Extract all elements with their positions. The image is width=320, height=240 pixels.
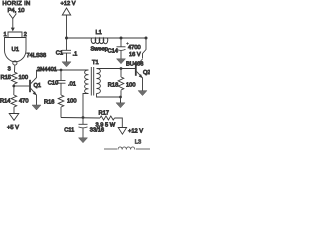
svg-text:U1: U1 <box>12 47 20 53</box>
wire rail to Q2 collector <box>143 38 147 59</box>
resistor R17 3.9 5W <box>96 110 116 128</box>
resistor R18 100 <box>108 69 136 98</box>
power +12V top <box>61 1 76 38</box>
capacitor C14 4700/16V <box>108 38 141 58</box>
wire R15 to node A <box>13 84 15 95</box>
wire pin1/pin2 tie bar <box>4 32 27 38</box>
svg-text:C10: C10 <box>48 80 58 86</box>
inductor L1 Sweep <box>91 30 108 52</box>
svg-text:P4, 10: P4, 10 <box>7 8 25 14</box>
wire gate output to R15 <box>14 65 16 72</box>
svg-text:R15: R15 <box>1 75 11 81</box>
svg-text:C14: C14 <box>108 48 118 54</box>
capacitor C1 .1 <box>56 38 77 58</box>
gate U1 74LS38 <box>5 38 47 73</box>
resistor R14 470 <box>0 95 29 107</box>
wire T1 right bottom to ground node <box>97 94 121 98</box>
power +5V <box>7 114 19 131</box>
wire R17 to +12V <box>115 118 123 128</box>
resistor R16 100 <box>44 95 77 107</box>
svg-text:R14: R14 <box>0 98 10 104</box>
svg-text:Sweep: Sweep <box>91 46 108 52</box>
node Q2 collector top <box>145 37 148 40</box>
svg-text:+5 V: +5 V <box>7 125 19 131</box>
wire T1 left bottom to rail <box>83 94 89 118</box>
node C10 tap <box>60 69 63 72</box>
svg-text:HORIZ IN: HORIZ IN <box>2 1 30 7</box>
svg-text:L1: L1 <box>96 30 102 36</box>
resistor R15 100 <box>1 72 29 84</box>
svg-text:+12 V: +12 V <box>61 1 76 7</box>
svg-text:C1: C1 <box>56 51 63 57</box>
svg-text:100: 100 <box>19 75 29 81</box>
svg-text:100: 100 <box>67 98 77 104</box>
transistor Q1 2N4401 <box>30 67 57 103</box>
svg-text:BU406: BU406 <box>126 61 143 67</box>
capacitor C11 33/16 <box>64 118 104 134</box>
svg-text:+12 V: +12 V <box>128 128 143 134</box>
svg-text:T1: T1 <box>92 60 99 66</box>
svg-text:C11: C11 <box>64 127 74 133</box>
ground Q1 emitter <box>36 103 38 109</box>
wire Q1 collector rail to T1 <box>37 69 89 71</box>
wire +12V rail <box>67 37 147 39</box>
wire R16 to bottom rail <box>60 107 62 118</box>
wire T1 right top to Q2 base <box>97 68 136 70</box>
svg-text:R18: R18 <box>108 82 118 88</box>
svg-text:470: 470 <box>19 98 29 104</box>
capacitor C10 .01 <box>48 70 76 95</box>
wire node A to Q1 base <box>14 85 29 87</box>
svg-text:4700: 4700 <box>128 45 141 51</box>
transistor Q2 BU406 <box>136 59 151 88</box>
node C11 tap <box>82 116 85 119</box>
wire bottom rail <box>61 117 100 120</box>
svg-text:R17: R17 <box>99 110 109 116</box>
node +12V/C1 <box>65 37 68 40</box>
svg-text:3: 3 <box>8 67 11 73</box>
connector HORIZ IN P4,10 <box>2 1 30 31</box>
transformer T1 <box>85 60 101 96</box>
svg-text:Q2: Q2 <box>143 70 150 76</box>
svg-text:R16: R16 <box>44 99 54 105</box>
svg-text:74LS38: 74LS38 <box>27 53 47 59</box>
svg-text:100: 100 <box>126 82 136 88</box>
svg-text:3.9 5 W: 3.9 5 W <box>96 122 116 128</box>
node R18 top <box>120 67 123 70</box>
wire R14 to +5V <box>13 107 15 114</box>
ground C11 <box>82 128 84 140</box>
ground secondary <box>116 97 125 108</box>
svg-text:Q1: Q1 <box>34 83 42 89</box>
ground Q2 emitter <box>142 88 144 94</box>
svg-text:.1: .1 <box>73 52 78 58</box>
svg-text:16 V: 16 V <box>129 52 141 58</box>
node secondary ground <box>119 96 122 99</box>
node A junction <box>12 85 15 88</box>
node C14 tap <box>120 37 123 40</box>
power +12V bottom <box>118 128 143 135</box>
ground C1 <box>66 53 68 64</box>
svg-text:.01: .01 <box>68 81 76 87</box>
ground C14 <box>120 51 122 62</box>
svg-text:L3: L3 <box>135 140 141 146</box>
inductor L3 <box>104 140 150 150</box>
